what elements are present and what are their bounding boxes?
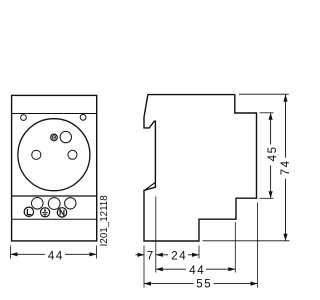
ext line y=240.8 (74 bottom)	[203, 240, 290, 242]
front view: left pin hole	[32, 150, 41, 159]
dim 55: label	[194, 277, 214, 288]
svg-text:74: 74	[280, 159, 292, 175]
dim 55: left arrow	[144, 282, 151, 286]
dim 44 (side): dimension line	[156, 268, 236, 270]
svg-text:44: 44	[48, 250, 64, 262]
svg-text:I201_12118: I201_12118	[99, 195, 110, 247]
dim 74: bottom arrow	[283, 234, 287, 241]
dim 45: top arrow	[269, 113, 273, 120]
dim 55: dimension line	[144, 283, 258, 285]
front view: center ring outer	[51, 134, 58, 141]
dim 24: right arrow	[192, 253, 199, 257]
front view: terminal band top line	[12, 195, 97, 197]
dim 44 (side): left arrow	[156, 267, 163, 271]
front view dim 44: left arrow	[11, 252, 18, 256]
svg-text:45: 45	[267, 145, 279, 161]
front view dim 44: left extension line	[10, 246, 12, 259]
dim 74: dimension line	[285, 95, 287, 241]
ext line x=199 (24 right)	[198, 246, 200, 259]
dim 45: label	[265, 145, 277, 166]
dim 55: right arrow	[251, 282, 258, 286]
front view: top band line	[12, 113, 97, 115]
dim 44 (side): label	[186, 264, 206, 275]
front view: center ring inner circle	[52, 136, 55, 139]
svg-text:24: 24	[171, 251, 187, 263]
front view: N label circle	[57, 208, 66, 217]
front view: right pin hole	[68, 150, 77, 159]
ext line y=112.8 (45 top)	[260, 112, 274, 114]
front view: PE earth symbol	[42, 208, 48, 216]
dim 7: left outside arrow	[136, 254, 145, 256]
dim 44 (side): right arrow	[228, 267, 235, 271]
ext line x=144 (55 left / 7 left)	[143, 246, 145, 288]
dim 45: dimension line	[270, 113, 272, 199]
ext line x=155.8 (7 right / 24+44 left)	[155, 197, 157, 273]
front view: L label circle	[24, 207, 33, 216]
side view: outline	[144, 95, 257, 241]
ext line y=94.2 (74 top)	[239, 93, 289, 95]
front view: left screw hole	[21, 115, 27, 121]
front view: lower band line	[12, 218, 97, 220]
front view: socket face large circle	[18, 119, 90, 191]
front view: right screw hole	[80, 114, 86, 120]
front view: terminal circle 2	[48, 198, 60, 210]
dim 24: left arrow	[156, 253, 163, 257]
front view: medium circle right of ring	[60, 131, 71, 142]
front view: terminal circle 1	[32, 198, 44, 210]
dim 24: dimension line	[156, 254, 199, 256]
svg-text:44: 44	[189, 265, 205, 277]
ext line x=257.5 (55 right)	[257, 203, 259, 288]
ext line x=235.3 (44 right)	[234, 222, 236, 273]
front view: L label text	[27, 209, 31, 215]
dim 74: label	[279, 158, 291, 179]
front view: N label text	[60, 210, 64, 216]
front view dim 44: right arrow	[90, 252, 97, 256]
dim 74: top arrow	[283, 95, 287, 102]
svg-text:7: 7	[147, 251, 153, 263]
front view: outer body rectangle	[12, 95, 97, 241]
front view: terminal circle 3	[65, 198, 76, 209]
dim 24: label	[168, 249, 188, 260]
front view dim 44: dimension line	[11, 253, 97, 255]
side view: DIN clip wedge	[145, 182, 156, 190]
front view dim 44: right extension line	[96, 246, 98, 259]
dim 45: bottom arrow	[269, 191, 273, 198]
ext line y=198.3 (45 bottom)	[260, 197, 274, 199]
svg-text:55: 55	[196, 279, 212, 291]
front view dim 44: label	[45, 249, 65, 260]
front view: PE label circle	[41, 208, 50, 217]
front view: center dot	[53, 137, 54, 138]
